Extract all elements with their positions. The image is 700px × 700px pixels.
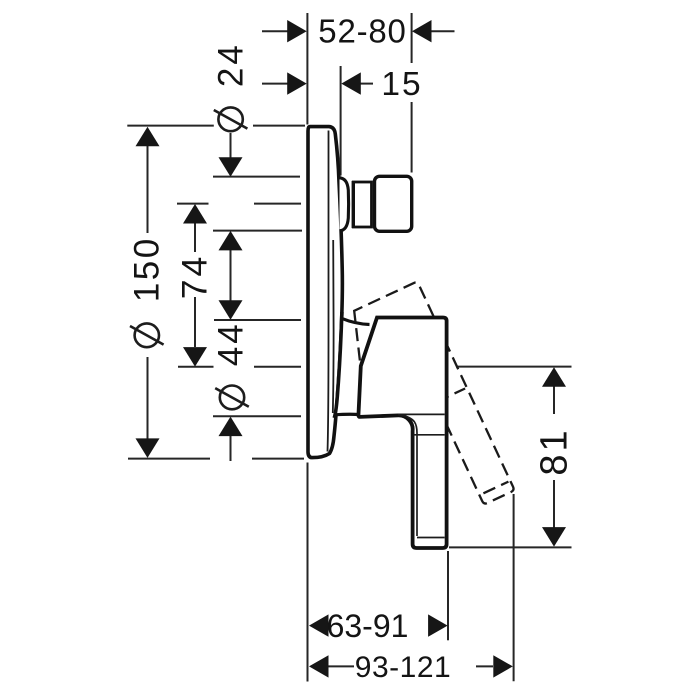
O44 stem below bottom arrow <box>230 436 232 461</box>
handle step inner curl + lever inner vertical line <box>399 415 417 536</box>
svg-text:93-121: 93-121 <box>355 651 451 684</box>
sleeve top edge <box>342 318 370 324</box>
diameter symbol for 150 <box>135 323 159 347</box>
dashed lever inner bottom line <box>483 482 508 494</box>
dim 93-121 tails <box>328 665 354 667</box>
O150 top arrow <box>136 127 160 147</box>
handle body + lever (solid) <box>358 318 446 549</box>
tick plate top (O150 top) <box>127 125 214 127</box>
svg-text:15: 15 <box>381 66 422 103</box>
escutcheon plate (side profile) <box>308 127 342 458</box>
81 bottom arrow <box>542 527 566 547</box>
handle step inner horizontal line <box>398 413 445 415</box>
81 top arrow <box>542 367 566 387</box>
74 dim stems <box>194 224 196 253</box>
tick plate bottom (O150 bottom) <box>128 458 210 460</box>
O150 bottom arrow <box>136 438 160 458</box>
81 ref line top <box>456 366 572 368</box>
81 ref line bottom <box>449 546 572 548</box>
ext line V right of 15 <box>340 66 342 176</box>
52-80 right arrow <box>412 20 432 42</box>
svg-text:150: 150 <box>128 236 167 302</box>
dashed handle (rotated 25deg open position) <box>337 281 514 527</box>
dashed handle outline <box>337 281 514 527</box>
ext line V wall plane bottom <box>307 463 309 682</box>
svg-text:52-80: 52-80 <box>318 13 406 50</box>
knob end cap <box>375 176 412 231</box>
74 tick top + knob centerline <box>177 203 209 205</box>
81 dim stems <box>553 387 555 415</box>
93-121 right arrow <box>493 655 513 677</box>
lever inner bottom line <box>417 537 445 539</box>
ext line V handle bottom right <box>447 551 449 640</box>
15 left arrow <box>287 72 307 94</box>
O44 tick bottom <box>213 415 301 417</box>
O24 stem above top arrow <box>230 133 232 158</box>
svg-text:44: 44 <box>212 321 251 366</box>
74 bottom arrow <box>183 347 207 367</box>
handle inner line 2 <box>414 434 445 436</box>
svg-text:74: 74 <box>174 254 214 300</box>
knob cylinder left edge (thicker) <box>352 181 355 228</box>
handle sleeve (cone between plate and handle body) <box>335 318 370 417</box>
svg-text:63-91: 63-91 <box>327 608 409 644</box>
93-121 left arrow <box>309 655 329 677</box>
sleeve bottom edge <box>335 413 360 417</box>
ext line V right of 52-80 (broken around 15 text) <box>411 13 413 63</box>
O44 bottom arrow <box>219 417 243 437</box>
plate front edge across sleeve zone <box>334 312 342 418</box>
O24 bottom arrow <box>219 231 243 251</box>
O24 tick top <box>213 176 300 178</box>
ext line V dashed-lever tip <box>513 494 515 681</box>
O24 top arrow <box>219 157 243 177</box>
knob middle cylinder <box>353 182 371 227</box>
52-80 left arrow <box>287 20 307 42</box>
74 tick bottom + handle centerline <box>178 366 214 368</box>
dim 15 tails <box>262 83 288 85</box>
63-91 right arrow <box>428 614 448 636</box>
plate inner contour line B <box>332 240 335 413</box>
O24 tick bottom <box>213 230 302 232</box>
diameter symbols (circle + slash) <box>130 107 249 409</box>
diameter symbol for 24 <box>218 107 242 131</box>
O44 top arrow <box>219 300 243 320</box>
ext line V left of 52-80 (wall plane top) <box>306 13 308 125</box>
dimension texts <box>128 13 576 685</box>
svg-text:81: 81 <box>534 427 576 475</box>
svg-text:24: 24 <box>212 42 251 87</box>
63-91 left arrow <box>309 614 329 636</box>
O150 dim line stems <box>147 146 149 233</box>
15 right arrow <box>341 72 361 94</box>
arrows <box>136 20 567 678</box>
dashed inner line <box>437 389 465 402</box>
O44 tick top <box>214 319 301 321</box>
plate inner contour line A <box>328 131 329 452</box>
stem between O24 bottom arrow and O44 top arrow <box>230 250 232 301</box>
knob bellows <box>340 178 349 231</box>
diameter symbol for 44 <box>220 386 244 410</box>
74 top arrow <box>183 204 207 224</box>
dim 52-80 tails <box>262 30 288 32</box>
